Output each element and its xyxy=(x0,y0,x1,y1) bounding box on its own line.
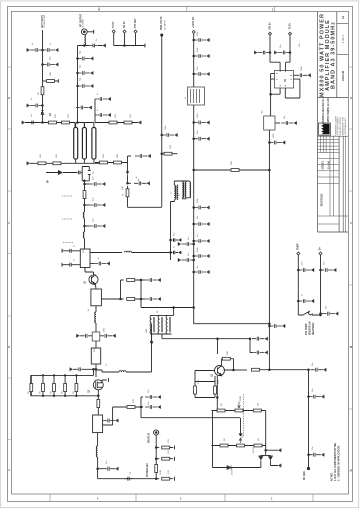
resistor R18 ballast xyxy=(30,375,32,395)
choke L10 xyxy=(166,315,168,334)
resistor R16 big xyxy=(91,348,100,364)
resistor R37 xyxy=(83,191,86,199)
node TX label xyxy=(113,21,115,28)
capacitor C53 xyxy=(250,339,252,353)
capacitor C39 xyxy=(85,183,90,185)
resistor R29 xyxy=(253,409,261,412)
thermistor RT1 xyxy=(298,311,320,315)
svg-text:BAND A3 39-50MHz: BAND A3 39-50MHz xyxy=(331,21,337,89)
svg-text:100R: 100R xyxy=(240,396,242,401)
wire choke feed xyxy=(151,308,174,316)
resistor R24 xyxy=(252,368,260,371)
matching loop caps xyxy=(81,167,91,181)
node SW B+ label xyxy=(270,22,272,30)
inductor L6 xyxy=(96,446,97,457)
svg-text:RT1 TEMP: RT1 TEMP xyxy=(306,323,308,335)
capacitor C34 xyxy=(171,238,179,241)
svg-text:SOLDER PAD: SOLDER PAD xyxy=(43,14,46,28)
resistor R10 xyxy=(162,153,164,155)
svg-text:AUSTRALIA 3175: AUSTRALIA 3175 xyxy=(344,117,347,134)
junction xyxy=(269,169,271,171)
wire xyxy=(132,252,171,254)
junction xyxy=(173,307,175,309)
junction xyxy=(193,240,195,242)
junction dots ballast xyxy=(42,375,43,376)
terminal diamond xyxy=(319,252,322,255)
terminal diamond xyxy=(134,30,137,33)
capacitor C4 xyxy=(27,104,43,108)
transformer T2 xyxy=(174,185,175,200)
capacitor C2 xyxy=(43,48,59,52)
capacitor C61 xyxy=(309,453,325,457)
junction xyxy=(217,397,219,399)
revision table rows xyxy=(318,140,349,225)
capacitor C19 xyxy=(194,137,210,141)
resistor R8 xyxy=(100,161,108,164)
junction xyxy=(42,64,44,66)
svg-text:PWR VOLTS: PWR VOLTS xyxy=(161,16,163,30)
svg-text:100R: 100R xyxy=(242,433,244,438)
resistor R35 xyxy=(155,465,158,473)
wire U1 left pins xyxy=(271,74,281,116)
junction xyxy=(140,298,142,300)
wire Q1 top xyxy=(85,272,94,275)
resistor R13 big xyxy=(80,249,90,268)
wire xyxy=(62,263,80,267)
junction xyxy=(93,369,95,371)
wire xyxy=(95,323,97,332)
ground right xyxy=(103,44,106,48)
junction xyxy=(84,183,86,185)
trimpot R28 xyxy=(235,409,243,412)
capacitor C46 xyxy=(100,334,116,338)
junction xyxy=(97,468,99,470)
diode D1 xyxy=(41,111,44,115)
capacitor C11 xyxy=(95,97,111,101)
svg-text:10R: 10R xyxy=(122,186,124,190)
svg-text:HEATSINK): HEATSINK) xyxy=(312,322,315,335)
resistor R14 big xyxy=(91,289,102,306)
ground left xyxy=(22,121,25,125)
wire power set link xyxy=(141,407,242,436)
capacitor C14 xyxy=(162,133,178,137)
notes text xyxy=(332,443,341,481)
capacitor C55 xyxy=(321,268,337,272)
capacitor C57 xyxy=(321,313,323,315)
wire xyxy=(95,306,97,312)
junction xyxy=(155,478,157,480)
svg-text:SENSOR (IN: SENSOR (IN xyxy=(309,321,311,335)
wire y163 xyxy=(94,162,102,164)
capacitor C33 xyxy=(134,181,150,185)
junction xyxy=(320,313,322,315)
resistor R27 xyxy=(217,409,225,412)
wire junction y369.3 xyxy=(86,364,97,377)
junction xyxy=(193,169,195,171)
zone ticks top/bottom xyxy=(50,7,313,502)
trimpot R31 xyxy=(237,444,245,447)
junction xyxy=(269,142,271,144)
svg-text:NOTES:: NOTES: xyxy=(332,472,334,481)
svg-text:RF GND: RF GND xyxy=(304,471,306,480)
capacitor C35 xyxy=(171,251,179,254)
wire y370 right xyxy=(96,370,119,372)
svg-text:C3541-1B: C3541-1B xyxy=(342,70,345,81)
wire xyxy=(55,79,59,83)
junction xyxy=(269,325,271,327)
resistor R6 xyxy=(109,121,117,124)
inductor L1 xyxy=(84,35,85,46)
resistor R40 ballast xyxy=(64,375,66,395)
wire y478.7 xyxy=(98,478,156,480)
transistor Q1 xyxy=(89,275,98,284)
resistor R32 xyxy=(254,444,262,447)
capacitor C13 xyxy=(135,154,151,158)
svg-text:REVISIONS: REVISIONS xyxy=(321,193,323,206)
sheet info cells xyxy=(337,24,348,232)
node RX label xyxy=(124,21,126,28)
wire R20 right xyxy=(103,407,127,425)
svg-text:10R: 10R xyxy=(117,154,119,158)
wire xyxy=(135,397,143,407)
U1 pin marks xyxy=(276,71,292,87)
wire y122.5 right xyxy=(95,122,138,124)
capacitor C51 xyxy=(141,298,145,300)
wire main y122.5 xyxy=(25,122,75,124)
resistor R38 xyxy=(41,87,44,95)
capacitor C60 xyxy=(309,395,325,399)
junction xyxy=(269,323,271,325)
svg-text:10R: 10R xyxy=(103,154,105,158)
svg-text:SW B+: SW B+ xyxy=(270,22,272,30)
capacitor C43 xyxy=(67,263,75,267)
svg-text:ISSUE 1: ISSUE 1 xyxy=(322,160,324,170)
wire x95 xyxy=(94,99,96,123)
resistor R7 xyxy=(124,121,132,124)
svg-text:(50 OHM): (50 OHM) xyxy=(83,19,85,28)
capacitor C41 xyxy=(85,225,90,227)
wire J2 down xyxy=(155,435,157,479)
node B+ label xyxy=(320,246,322,250)
wire Q3 down xyxy=(97,390,99,399)
junction xyxy=(140,406,142,408)
svg-text:47R: 47R xyxy=(218,380,220,384)
wire to bias diodes xyxy=(261,446,278,456)
wire bus x193.7 upper xyxy=(193,34,195,87)
terminal diamond xyxy=(269,32,272,35)
svg-text:D3 5V6: D3 5V6 xyxy=(232,467,234,475)
wire xyxy=(97,457,99,479)
junction xyxy=(140,279,142,281)
wire y263.5 xyxy=(90,263,94,265)
resistor R4 xyxy=(38,162,46,165)
inductor L3 xyxy=(125,251,132,252)
junction xyxy=(320,314,322,316)
junction xyxy=(120,298,122,300)
junction xyxy=(84,45,86,47)
capacitor C42 xyxy=(67,249,75,253)
resistor R34 xyxy=(156,458,159,460)
capacitor C59 xyxy=(311,368,327,372)
transistor Q3 mosfet xyxy=(93,380,103,390)
node TEMP label xyxy=(298,243,300,250)
junction xyxy=(77,122,79,124)
wire left leg down xyxy=(77,46,79,123)
wire ANT vertical xyxy=(42,30,44,123)
junction xyxy=(308,454,310,456)
wire ballast rails xyxy=(31,369,99,396)
svg-text:TX 8V: TX 8V xyxy=(113,21,115,28)
terminal pad xyxy=(161,34,163,36)
resistor R21 xyxy=(127,279,135,282)
node RF GND xyxy=(307,467,309,469)
svg-text:10R: 10R xyxy=(50,72,52,76)
wire xyxy=(62,249,80,253)
junction xyxy=(193,255,195,257)
capacitor C29 xyxy=(281,121,297,125)
junction xyxy=(42,49,44,51)
transformer T3 xyxy=(182,182,183,198)
wire R13 bottom xyxy=(84,268,86,273)
capacitor C36 left xyxy=(178,242,194,246)
revision table columns xyxy=(321,136,346,232)
terminal diamond xyxy=(192,30,195,33)
junction xyxy=(193,55,195,57)
arrow VBB down xyxy=(150,334,153,344)
resistor R26 xyxy=(214,386,217,394)
svg-text:47R: 47R xyxy=(168,470,170,474)
wire y45.5 xyxy=(78,45,103,47)
capacitor C6 xyxy=(90,44,98,48)
wire xyxy=(260,369,309,371)
wire xyxy=(135,280,141,308)
capacitor C62 xyxy=(145,395,161,399)
wire xyxy=(195,376,217,411)
junction xyxy=(127,183,129,185)
junction xyxy=(193,271,195,273)
capacitor C48 xyxy=(103,419,119,423)
wire bus x193.7 lower xyxy=(193,105,195,308)
wire base loop xyxy=(195,371,215,387)
capacitor C22 xyxy=(194,239,210,243)
svg-text:+13.8V DC: +13.8V DC xyxy=(193,16,195,28)
resistor R33 xyxy=(156,447,159,449)
svg-text:VBB: VBB xyxy=(146,328,148,333)
svg-text:47R: 47R xyxy=(133,399,135,403)
wire xyxy=(97,408,99,416)
junction xyxy=(77,58,79,60)
junction xyxy=(298,269,300,271)
wire gate stub xyxy=(102,378,109,382)
junction xyxy=(193,122,195,124)
stripline TL2 xyxy=(82,127,86,159)
resistor R9 xyxy=(114,161,122,164)
terminal diamond xyxy=(289,32,292,35)
resistor R41 ballast xyxy=(75,375,77,395)
junction xyxy=(84,204,86,206)
capacitor C18 xyxy=(194,121,210,125)
svg-text:1 OF 1: 1 OF 1 xyxy=(341,34,345,42)
ground right xyxy=(138,121,141,125)
svg-text:APPD T.SMITH 12-4-96: APPD T.SMITH 12-4-96 xyxy=(327,98,330,123)
wire temp verticals xyxy=(298,255,320,315)
capacitor C24 xyxy=(194,270,210,274)
capacitor C63 xyxy=(145,405,161,409)
svg-text:RX 8V: RX 8V xyxy=(124,21,126,28)
junction xyxy=(193,207,195,209)
node PTT label xyxy=(135,18,137,28)
junction xyxy=(270,93,272,95)
signal arrow RF drive xyxy=(46,171,62,175)
wire y170 branch xyxy=(194,169,270,171)
wire x90 vertical xyxy=(84,181,86,191)
svg-text:220R: 220R xyxy=(160,470,162,475)
wire row connections xyxy=(213,411,266,468)
zone ticks left/right xyxy=(8,67,352,471)
logo mark xyxy=(321,124,329,135)
junction xyxy=(95,369,97,371)
inductor L5 xyxy=(119,371,126,372)
capacitor C15 xyxy=(194,38,210,42)
svg-text:47R: 47R xyxy=(168,439,170,443)
resistor R25 xyxy=(194,386,197,394)
dashed link xyxy=(62,196,73,243)
relay K1 xyxy=(264,116,275,130)
transistor Q2 xyxy=(215,366,225,376)
svg-text:10-4-96: 10-4-96 xyxy=(327,160,330,169)
wire xyxy=(172,153,178,155)
wire x127 chain xyxy=(128,175,132,207)
junction xyxy=(84,180,86,182)
regulator U1 xyxy=(275,71,294,89)
inductor L7 xyxy=(125,477,133,481)
wire xyxy=(95,341,97,348)
junction xyxy=(42,122,44,124)
wire bus x161.75 xyxy=(161,35,163,207)
junction xyxy=(269,369,271,371)
junction xyxy=(308,396,310,398)
capacitor C27 xyxy=(275,51,291,55)
capacitor C17 xyxy=(194,72,210,76)
junction xyxy=(161,153,163,155)
wire U1 right pin xyxy=(294,74,296,76)
svg-text:TEMP: TEMP xyxy=(298,243,300,250)
dashed trimpot link xyxy=(243,394,245,438)
label RF OUTPUT xyxy=(81,13,83,27)
junction xyxy=(320,269,322,271)
junction xyxy=(170,239,172,241)
svg-text:47R: 47R xyxy=(198,380,200,384)
wire R20 bottom xyxy=(97,433,99,446)
capacitor C28 xyxy=(295,73,311,77)
resistor R15 xyxy=(92,332,100,341)
stripline TL3 xyxy=(92,127,96,159)
junction xyxy=(84,225,86,227)
resistor R39 ballast xyxy=(53,375,55,395)
diode D2 xyxy=(126,163,129,176)
wire connector stub xyxy=(87,30,94,34)
junction xyxy=(269,52,271,54)
wire feedback xyxy=(224,359,234,370)
wire to transformer column xyxy=(75,123,84,128)
wire emitter row y445.5 xyxy=(212,445,266,447)
wire T outputs xyxy=(171,198,190,202)
resistor R22 xyxy=(127,298,135,301)
capacitor C16 xyxy=(194,54,210,58)
junction xyxy=(161,134,163,136)
junction xyxy=(77,85,79,87)
junction xyxy=(193,223,195,225)
wire feed x270 lower xyxy=(268,130,270,370)
capacitor C12 xyxy=(95,113,111,117)
wire diode bottoms xyxy=(261,460,278,467)
capacitor C49 xyxy=(98,468,103,470)
connector J2 xyxy=(154,430,159,435)
svg-text:D4 D5: D4 D5 xyxy=(253,446,255,453)
capacitor C1 xyxy=(27,48,43,52)
capacitor C23 xyxy=(194,254,210,258)
wire y307.5 xyxy=(141,307,194,309)
wire U1 bottom loop xyxy=(285,79,300,98)
capacitor C7 xyxy=(78,57,94,61)
wire bottom loop xyxy=(213,467,261,469)
node ANT label xyxy=(41,15,44,28)
terminal diamond xyxy=(112,30,115,33)
capacitor C9 xyxy=(78,84,94,88)
capacitor C56 xyxy=(298,299,314,303)
svg-text:47R: 47R xyxy=(168,450,170,454)
stripline TL1 xyxy=(74,127,78,159)
terminal diamond xyxy=(123,30,126,33)
capacitor C45 xyxy=(77,334,93,338)
ballast labels xyxy=(28,391,75,394)
wire transformer frame xyxy=(174,181,189,185)
wire bus bottom xyxy=(128,206,162,208)
wire R13 right xyxy=(90,252,122,254)
capacitor C3 xyxy=(43,63,59,67)
wire xyxy=(126,324,152,372)
node TX B+ label xyxy=(290,22,292,29)
capacitor C47 xyxy=(70,367,86,371)
svg-text:POWER SET: POWER SET xyxy=(147,463,149,477)
junction xyxy=(193,307,195,309)
choke L9 xyxy=(158,315,160,334)
junction xyxy=(193,73,195,75)
resistor R19 ballast xyxy=(42,375,44,395)
wire choke bottom tie xyxy=(151,333,172,335)
junction xyxy=(217,338,219,340)
wire relay stub xyxy=(275,122,280,124)
choke L8 xyxy=(150,315,152,334)
capacitor C21 xyxy=(194,222,210,226)
wire collector y370 xyxy=(234,369,248,371)
resistor R5 xyxy=(53,162,61,165)
junction xyxy=(249,338,251,340)
capacitor C40 xyxy=(85,204,90,206)
junction xyxy=(193,138,195,140)
svg-text:PTT KEY: PTT KEY xyxy=(135,18,137,28)
wire feed x290 xyxy=(286,35,290,70)
svg-text:DRIVE IN: DRIVE IN xyxy=(149,433,151,443)
svg-text:1. NOT ALL COMPONENTS FITTED: 1. NOT ALL COMPONENTS FITTED xyxy=(334,443,337,481)
connector J1 xyxy=(81,29,87,35)
wire step to PA xyxy=(194,308,270,324)
wire control stubs xyxy=(114,33,145,47)
junction xyxy=(155,447,157,449)
svg-text:10R: 10R xyxy=(227,351,229,355)
svg-text:10R: 10R xyxy=(170,145,172,149)
resistor R11 xyxy=(231,169,239,172)
